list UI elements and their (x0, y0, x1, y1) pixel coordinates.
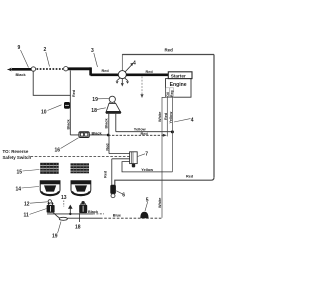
svg-text:19: 19 (52, 234, 58, 240)
svg-text:Black: Black (88, 210, 99, 214)
svg-text:18: 18 (91, 108, 97, 114)
svg-text:9: 9 (18, 45, 21, 51)
svg-text:Red: Red (164, 112, 168, 120)
svg-text:Red: Red (102, 69, 110, 73)
svg-text:16: 16 (55, 147, 61, 153)
svg-text:Yellow: Yellow (134, 127, 146, 131)
svg-text:Red: Red (104, 170, 108, 178)
svg-text:Engine: Engine (170, 82, 187, 88)
svg-text:Red: Red (106, 143, 110, 151)
svg-text:Yellow: Yellow (169, 112, 173, 124)
svg-text:13: 13 (61, 195, 67, 201)
svg-text:Starter: Starter (171, 73, 186, 78)
svg-text:White: White (158, 198, 162, 208)
svg-text:18: 18 (75, 224, 81, 230)
svg-text:7: 7 (145, 151, 148, 157)
svg-text:Yellow: Yellow (141, 168, 153, 172)
svg-text:11: 11 (24, 213, 30, 219)
svg-text:Red: Red (186, 174, 194, 178)
svg-text:Reg: Reg (170, 90, 174, 96)
svg-text:10: 10 (41, 110, 47, 116)
svg-text:Red: Red (72, 89, 76, 97)
svg-text:Black: Black (105, 117, 109, 128)
svg-text:12: 12 (24, 201, 30, 207)
svg-text:14: 14 (16, 187, 22, 193)
svg-text:4: 4 (133, 61, 136, 67)
svg-text:Safety Switch: Safety Switch (3, 155, 32, 160)
svg-text:5: 5 (146, 198, 149, 204)
svg-text:Black: Black (16, 73, 27, 77)
svg-text:Red: Red (165, 47, 174, 52)
svg-text:4: 4 (191, 117, 194, 123)
svg-text:15: 15 (17, 170, 23, 176)
svg-text:Blue: Blue (113, 213, 121, 217)
svg-text:Red: Red (141, 132, 149, 136)
svg-text:19: 19 (92, 97, 98, 103)
svg-text:Black: Black (67, 118, 71, 129)
svg-text:TO: Reverse: TO: Reverse (3, 149, 29, 154)
svg-text:6: 6 (122, 193, 125, 199)
svg-text:White: White (158, 112, 162, 122)
svg-text:Black: Black (92, 131, 103, 135)
svg-text:Red: Red (146, 70, 154, 74)
